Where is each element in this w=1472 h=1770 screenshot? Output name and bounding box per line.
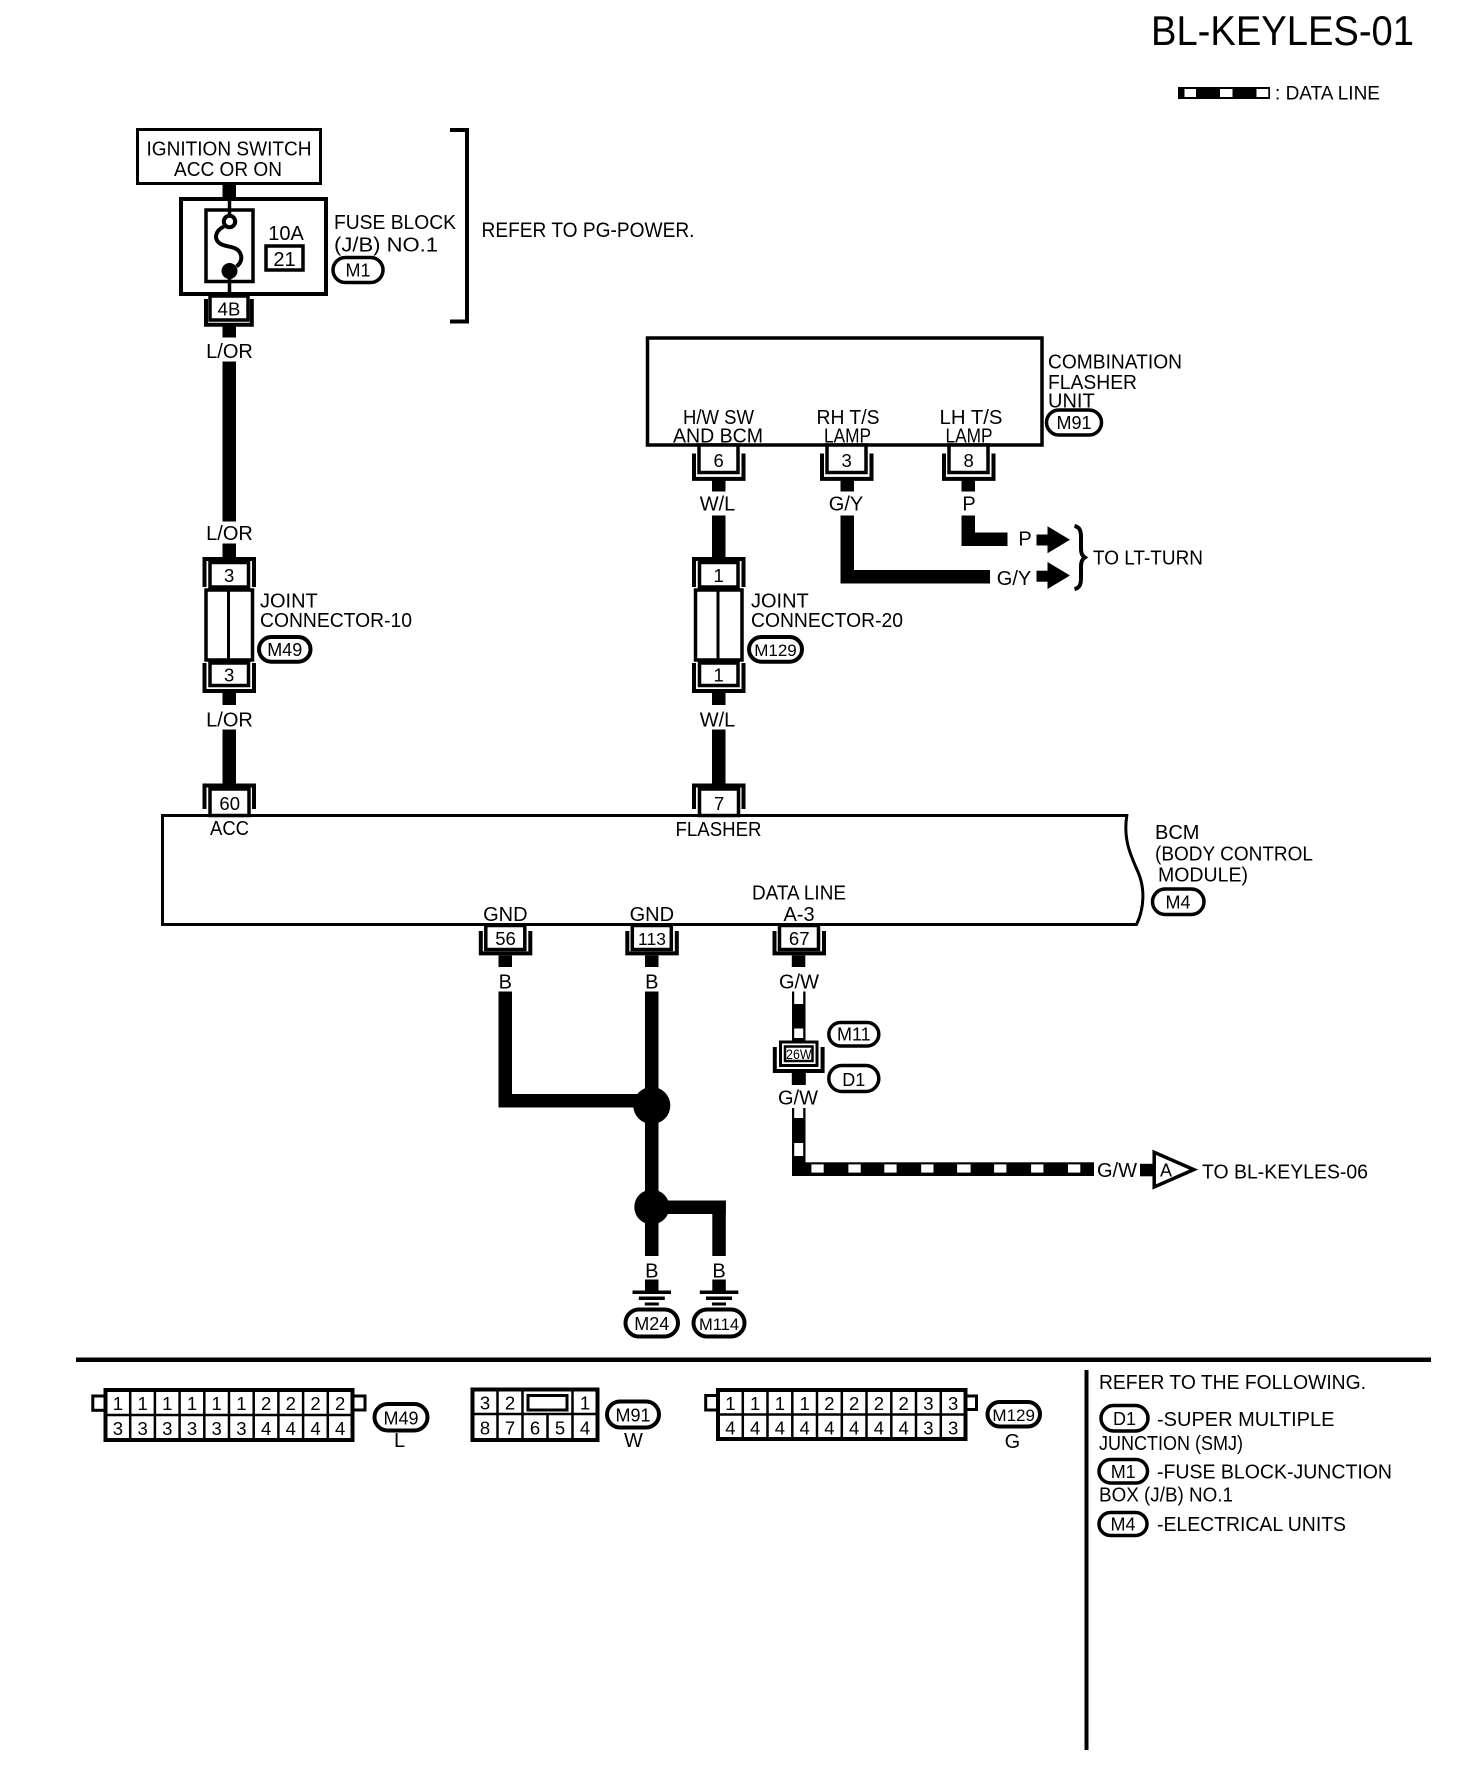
legend M1 oval	[1099, 1460, 1148, 1484]
svg-text:-SUPER MULTIPLE: -SUPER MULTIPLE	[1157, 1409, 1334, 1431]
terminal 4B box	[210, 296, 248, 320]
svg-text:1: 1	[236, 1393, 246, 1414]
svg-text:A-3: A-3	[783, 904, 814, 926]
svg-text:113: 113	[638, 929, 666, 949]
joint connector-10 body	[206, 590, 253, 660]
BCM pin 56 box	[486, 926, 525, 950]
svg-text:W/L: W/L	[700, 494, 736, 516]
connector label M1 oval	[333, 258, 383, 283]
svg-text:3: 3	[923, 1418, 933, 1439]
BCM pin 113 housing cup	[627, 931, 677, 953]
wire stub below joint connector-10	[223, 693, 237, 705]
wire stub below pin 3	[841, 481, 855, 492]
svg-text:P: P	[962, 494, 975, 516]
legend D1 oval	[1101, 1406, 1148, 1432]
svg-text:G/W: G/W	[1097, 1160, 1137, 1182]
svg-text:4: 4	[799, 1418, 809, 1439]
combination flasher unit box	[648, 338, 1043, 445]
connector pinout M49 tabs	[93, 1396, 106, 1410]
svg-text:4: 4	[750, 1418, 760, 1439]
flasher pin 8 box	[949, 445, 988, 473]
connector label M49 oval (pinout)	[375, 1404, 428, 1431]
svg-text:G/W: G/W	[779, 972, 819, 994]
svg-text:ACC: ACC	[210, 818, 249, 840]
svg-text:6: 6	[530, 1418, 540, 1439]
flasher pin 8 housing cup	[944, 454, 994, 479]
svg-text:1: 1	[162, 1393, 172, 1414]
fuse block (J/B) no.1 box	[181, 199, 326, 294]
svg-text:1: 1	[187, 1393, 197, 1414]
joint connector-10 bottom housing cup	[205, 663, 255, 691]
wire stub below 4B	[223, 327, 237, 338]
svg-text:2: 2	[310, 1393, 320, 1414]
svg-text:1: 1	[725, 1393, 735, 1414]
flasher pin 3 box	[827, 445, 866, 473]
wire stub below pin 56	[499, 956, 513, 968]
wire stub ignition to fuse block	[223, 184, 237, 198]
svg-text:10A: 10A	[268, 223, 304, 245]
svg-text:D1: D1	[1113, 1409, 1136, 1429]
svg-text:3: 3	[187, 1418, 197, 1439]
svg-text:M1: M1	[1111, 1462, 1136, 1482]
svg-text:1: 1	[212, 1393, 222, 1414]
svg-text:3: 3	[236, 1418, 246, 1439]
svg-text:4: 4	[898, 1418, 908, 1439]
junction node dot	[633, 1087, 670, 1124]
svg-text:7: 7	[714, 793, 724, 814]
svg-text:2: 2	[286, 1393, 296, 1414]
wire L/OR to BCM pin 60	[223, 730, 237, 786]
connector pinout M129 body	[718, 1390, 966, 1439]
svg-text:M24: M24	[634, 1314, 669, 1334]
SMJ housing cup	[775, 1047, 823, 1071]
flasher pin 6 box	[699, 445, 738, 473]
svg-text:JUNCTION (SMJ): JUNCTION (SMJ)	[1099, 1433, 1243, 1455]
svg-text:TO LT-TURN: TO LT-TURN	[1093, 548, 1203, 570]
svg-text:21: 21	[273, 249, 295, 271]
BCM pin 60 box	[210, 789, 249, 816]
svg-text:G: G	[1005, 1431, 1021, 1453]
svg-text:M49: M49	[267, 640, 302, 660]
data line wire G/W striped segment above 26W	[792, 992, 806, 1041]
fuse number 21 box	[266, 246, 303, 270]
connector label M4 oval	[1153, 889, 1205, 915]
svg-text:M91: M91	[615, 1406, 650, 1426]
BCM pin 7 housing bracket	[694, 786, 744, 810]
ground label M24 oval	[626, 1310, 679, 1337]
wire stub below pin 8	[962, 481, 976, 492]
svg-text:TO BL-KEYLES-06: TO BL-KEYLES-06	[1202, 1162, 1368, 1184]
svg-text:P: P	[1018, 529, 1031, 551]
joint connector-10 bottom terminal 3 box	[210, 663, 249, 686]
svg-text:G/W: G/W	[778, 1088, 818, 1110]
terminal 4B housing cup	[206, 299, 252, 325]
joint connector-20 top housing bracket	[694, 559, 744, 587]
svg-text:2: 2	[898, 1393, 908, 1414]
svg-text:2: 2	[849, 1393, 859, 1414]
wire G/Y elbow to arrow	[841, 516, 855, 584]
wire B from pin 56 down and right	[499, 992, 513, 1108]
BCM pin 67 box	[780, 926, 819, 950]
svg-text:7: 7	[505, 1418, 515, 1439]
svg-text:M1: M1	[345, 261, 370, 281]
connector pinout M91 body	[473, 1390, 598, 1441]
svg-text:3: 3	[842, 450, 852, 471]
joint connector-20 top terminal 1 box	[700, 563, 739, 588]
joint connector-20 body	[696, 590, 743, 660]
svg-text:(J/B) NO.1: (J/B) NO.1	[334, 235, 438, 257]
svg-text:3: 3	[480, 1393, 490, 1414]
svg-text:M4: M4	[1165, 893, 1190, 913]
svg-text:2: 2	[505, 1393, 515, 1414]
svg-text:2: 2	[874, 1393, 884, 1414]
svg-text:ACC OR ON: ACC OR ON	[174, 159, 282, 181]
svg-text:L/OR: L/OR	[206, 710, 253, 732]
svg-text:1: 1	[799, 1393, 809, 1414]
refer bracket	[450, 130, 467, 322]
connector label M129 oval (pinout)	[988, 1402, 1041, 1427]
ground symbol M24	[645, 1280, 659, 1292]
svg-text:4: 4	[849, 1418, 859, 1439]
svg-text:A: A	[1160, 1161, 1172, 1181]
svg-text:B: B	[645, 972, 658, 994]
wire stub below pin 67	[792, 956, 806, 968]
svg-text:1: 1	[750, 1393, 760, 1414]
fuse cartridge inner box	[206, 210, 253, 282]
svg-text:56: 56	[495, 928, 516, 949]
svg-text:5: 5	[555, 1418, 565, 1439]
svg-text:3: 3	[113, 1418, 123, 1439]
wire P elbow to arrow	[962, 516, 976, 546]
svg-text:M49: M49	[383, 1409, 418, 1429]
ignition switch box	[138, 130, 321, 184]
svg-text:BL-KEYLES-01: BL-KEYLES-01	[1151, 7, 1414, 54]
ground label M114 oval	[694, 1310, 745, 1337]
svg-text:4: 4	[261, 1418, 271, 1439]
svg-text:3: 3	[948, 1418, 958, 1439]
connector pinout M129 tabs	[706, 1396, 718, 1411]
arrow to LT-TURN (G/Y)	[1037, 571, 1050, 582]
svg-text:4: 4	[580, 1418, 590, 1439]
off-page arrow A	[1154, 1152, 1194, 1187]
svg-text:CONNECTOR-10: CONNECTOR-10	[260, 610, 412, 632]
svg-text:67: 67	[789, 928, 810, 949]
svg-text:2: 2	[824, 1393, 834, 1414]
svg-text:GND: GND	[630, 904, 674, 926]
BCM pin 60 housing bracket	[205, 786, 255, 810]
data line wire horizontal striped run	[792, 1162, 1094, 1176]
connector label M49 oval	[259, 637, 311, 662]
svg-text:1: 1	[714, 565, 724, 586]
svg-text:4: 4	[286, 1418, 296, 1439]
svg-text:2: 2	[261, 1393, 271, 1414]
svg-text:G/Y: G/Y	[829, 494, 863, 516]
wire L/OR long vertical	[223, 362, 237, 522]
svg-text:BOX (J/B) NO.1: BOX (J/B) NO.1	[1099, 1485, 1233, 1507]
svg-text:MODULE): MODULE)	[1158, 865, 1248, 887]
svg-text:B: B	[499, 972, 512, 994]
svg-text:4: 4	[725, 1418, 735, 1439]
svg-text:60: 60	[219, 793, 240, 814]
svg-text:DATA LINE: DATA LINE	[752, 883, 846, 905]
svg-text:1: 1	[775, 1393, 785, 1414]
svg-text:2: 2	[335, 1393, 345, 1414]
svg-text:3: 3	[162, 1418, 172, 1439]
BCM pin 67 housing cup	[775, 931, 825, 953]
connector label M91 oval	[1047, 410, 1102, 435]
svg-text:BCM: BCM	[1155, 822, 1199, 844]
wire stub below 26W	[792, 1073, 806, 1086]
BCM pin 7 box	[700, 789, 739, 816]
svg-text:-FUSE BLOCK-JUNCTION: -FUSE BLOCK-JUNCTION	[1157, 1462, 1392, 1484]
svg-text:M4: M4	[1110, 1515, 1135, 1535]
BCM pin 56 housing cup	[481, 931, 531, 953]
wire W/L to joint connector-20	[712, 516, 726, 558]
connector pinout M49 body	[106, 1390, 353, 1440]
svg-text:G/Y: G/Y	[997, 568, 1031, 590]
data line wire G/W striped segment below 26W with corner	[792, 1108, 806, 1176]
svg-text:4B: 4B	[218, 299, 241, 320]
arrow to LT-TURN (P)	[1037, 535, 1050, 546]
svg-text:4: 4	[775, 1418, 785, 1439]
svg-text:1: 1	[137, 1393, 147, 1414]
flasher pin 3 housing cup	[822, 454, 872, 479]
fuse 10A symbol	[228, 197, 232, 215]
svg-text:4: 4	[310, 1418, 320, 1439]
SMJ terminal 26W box	[781, 1042, 818, 1066]
svg-text:GND: GND	[483, 904, 527, 926]
svg-text:M114: M114	[699, 1316, 739, 1334]
svg-text:3: 3	[224, 665, 234, 686]
svg-text:W: W	[624, 1430, 643, 1452]
legend M4 oval	[1099, 1513, 1147, 1536]
svg-text:8: 8	[480, 1418, 490, 1439]
connector label D1 oval	[829, 1066, 879, 1092]
svg-text:4: 4	[824, 1418, 834, 1439]
svg-text:: DATA LINE: : DATA LINE	[1275, 84, 1380, 105]
BCM (body control module) box with torn right edge	[163, 816, 1143, 925]
wire stub above joint connector-10	[223, 544, 237, 558]
joint connector-10 top housing bracket	[205, 559, 255, 587]
connector label M129 oval	[749, 637, 802, 662]
legend data-line sample bar	[1178, 87, 1270, 99]
legend divider line	[1085, 1370, 1089, 1750]
svg-text:IGNITION SWITCH: IGNITION SWITCH	[147, 139, 312, 161]
svg-text:FUSE BLOCK: FUSE BLOCK	[334, 212, 457, 234]
ground symbol M114	[712, 1280, 726, 1292]
svg-text:REFER TO THE FOLLOWING.: REFER TO THE FOLLOWING.	[1099, 1372, 1366, 1394]
wire W/L to BCM pin 7	[712, 730, 726, 786]
svg-text:L/OR: L/OR	[206, 523, 253, 545]
svg-text:-ELECTRICAL UNITS: -ELECTRICAL UNITS	[1157, 1514, 1346, 1536]
wire stub below pin 113	[645, 956, 659, 968]
joint connector-20 bottom housing cup	[694, 663, 744, 691]
svg-text:3: 3	[948, 1393, 958, 1414]
svg-text:3: 3	[224, 565, 234, 586]
svg-text:M129: M129	[992, 1406, 1035, 1425]
svg-text:FLASHER: FLASHER	[676, 819, 762, 841]
svg-text:3: 3	[212, 1418, 222, 1439]
svg-text:1: 1	[714, 665, 724, 686]
svg-text:B: B	[712, 1261, 725, 1283]
junction node dot	[634, 1190, 669, 1225]
svg-text:1: 1	[113, 1393, 123, 1414]
svg-text:(BODY CONTROL: (BODY CONTROL	[1155, 844, 1313, 866]
svg-text:M91: M91	[1056, 413, 1091, 433]
wire stub below joint connector-20	[712, 693, 726, 705]
wire B from pin 113 down to grounds	[645, 992, 659, 1257]
svg-text:3: 3	[923, 1393, 933, 1414]
wire stub before arrow A	[1140, 1164, 1153, 1177]
wire stub below pin 6	[712, 481, 726, 492]
joint connector-10 top terminal 3 box	[210, 563, 249, 588]
svg-text:6: 6	[714, 450, 724, 471]
joint connector-20 bottom terminal 1 box	[700, 663, 739, 686]
svg-text:8: 8	[964, 450, 974, 471]
svg-text:M129: M129	[754, 641, 797, 660]
svg-text:B: B	[645, 1261, 658, 1283]
svg-text:CONNECTOR-20: CONNECTOR-20	[751, 610, 903, 632]
svg-text:3: 3	[137, 1418, 147, 1439]
svg-text:L: L	[394, 1430, 405, 1452]
connector label M11 oval	[829, 1023, 879, 1047]
svg-text:REFER TO PG-POWER.: REFER TO PG-POWER.	[482, 219, 695, 242]
connector label M91 oval (pinout)	[607, 1402, 659, 1428]
separator line	[76, 1358, 1431, 1363]
svg-text:L/OR: L/OR	[206, 341, 253, 363]
connector pinout M91 key slot	[528, 1396, 567, 1411]
svg-text:D1: D1	[842, 1070, 865, 1090]
brace for TO LT-TURN	[1075, 526, 1085, 589]
svg-text:4: 4	[335, 1418, 345, 1439]
svg-text:26W: 26W	[786, 1046, 812, 1062]
wire branch to second ground	[652, 1201, 726, 1215]
flasher pin 6 housing cup	[694, 454, 744, 479]
svg-text:4: 4	[874, 1418, 884, 1439]
svg-text:1: 1	[580, 1393, 590, 1414]
svg-text:COMBINATION: COMBINATION	[1048, 352, 1182, 374]
BCM pin 113 box	[632, 926, 671, 950]
svg-text:M11: M11	[837, 1025, 871, 1045]
svg-text:W/L: W/L	[700, 710, 736, 732]
